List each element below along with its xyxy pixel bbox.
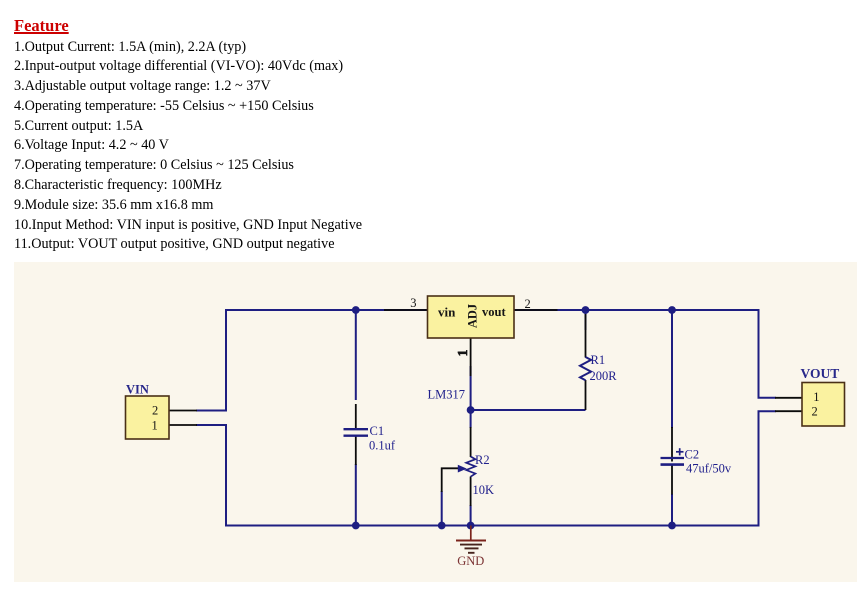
value 200R [590,369,618,383]
wire: C2 upper column [671,310,673,428]
wire: VOUT pin1 horizontal [758,397,777,399]
label VOUT [801,366,840,381]
pin number 1 (rotated) [455,349,470,356]
capacitor C2 plates (polarized) [661,448,685,464]
pin 1 (ADJ) of U1 (black stub) [470,338,472,376]
wire: C1 lower column [355,464,357,526]
capacitor C1 plates [344,429,369,436]
svg-text:vout: vout [482,305,506,319]
svg-text:GND: GND [457,554,484,568]
junction: C1 top [352,306,360,314]
label VIN [126,382,149,396]
svg-text:R2: R2 [475,453,490,467]
wire: R2 upper column [470,410,472,428]
pin stubs of C2 [671,427,673,495]
svg-text:1: 1 [813,390,819,404]
wire: R2 lower column [470,505,472,526]
wire: C2 lower column [671,494,673,526]
label C1 [370,424,385,438]
connector VIN body [126,396,170,439]
junction: R1 top [582,306,590,314]
pin stubs of R2 [470,427,472,506]
ground symbol [456,526,486,553]
label R1 [591,353,606,367]
svg-text:ADJ: ADJ [465,304,479,328]
svg-text:1: 1 [455,349,470,356]
svg-text:1: 1 [152,419,158,433]
value 0.1uf [369,439,396,453]
potentiometer R2 wiper arrowhead [458,465,467,473]
label GND [457,554,484,568]
svg-text:R1: R1 [591,353,606,367]
svg-text:0.1uf: 0.1uf [369,439,396,453]
label C2 [685,447,700,461]
wire: VOUT pin2 horizontal [758,410,777,412]
op-amp U1 LM317 regulator body [428,296,515,338]
wire: R1 upper column [585,310,587,330]
svg-text:2: 2 [525,297,531,311]
svg-text:VOUT: VOUT [801,366,840,381]
pin 3 of U1 (black stub) [384,309,428,311]
svg-text:2: 2 [812,405,818,419]
potentiometer R2 wiper pin (black) [442,468,459,492]
svg-text:VIN: VIN [126,382,149,396]
wire: C1 upper column [355,310,357,400]
wire: VIN pin1 stub to vertical [196,424,227,426]
svg-text:vin: vin [438,304,456,319]
svg-text:2: 2 [152,404,158,418]
connector VOUT body [802,383,845,427]
svg-text:10K: 10K [473,483,495,497]
svg-text:200R: 200R [590,369,618,383]
pin stubs of VOUT connector [775,398,802,411]
wire: left vertical lower (VIN pin1 to bottom rail) [225,425,227,527]
svg-text:C2: C2 [685,447,700,461]
label R2 [475,453,490,467]
pin number 2 [525,297,531,311]
junction: C2 top [668,306,676,314]
resistor R1 zigzag [580,357,591,380]
potentiometer R2 zigzag [466,457,475,477]
wire: R2 wiper to bottom rail [441,491,443,526]
wire: right vertical lower (VOUT pin2 to bottom rail) [758,411,760,526]
svg-text:LM317: LM317 [428,388,466,402]
junction: C2 bottom [668,522,676,530]
wire: top rail (VIN to VOUT net) [226,309,759,311]
wire: right vertical upper (top rail to VOUT pin1) [758,309,760,398]
designator label LM317 [428,388,466,402]
wire: left vertical upper (VIN pin2 to top rail) [225,309,227,411]
pin stubs of R1 [585,314,587,410]
pin 2 of U1 (black stub) [514,309,558,311]
pin stubs of VIN connector [169,411,197,426]
svg-text:C1: C1 [370,424,385,438]
junction: R2 wiper bottom [438,522,446,530]
junction: R2 bottom [467,522,475,530]
junction: ADJ node [467,406,475,414]
wire: bottom rail (ground net) [225,525,759,527]
pin number 3 [410,296,416,310]
wire: ADJ pin to junction [470,366,472,410]
svg-text:3: 3 [410,296,416,310]
junction: C1 bottom [352,522,360,530]
wire: VIN pin2 stub to vertical [196,410,227,412]
svg-text:47uf/50v: 47uf/50v [686,462,732,476]
value 10K [473,483,495,497]
value 47uf/50v [686,462,732,476]
pin stubs of C1 [355,404,357,465]
wire: ADJ junction to R1 bottom [471,409,586,411]
